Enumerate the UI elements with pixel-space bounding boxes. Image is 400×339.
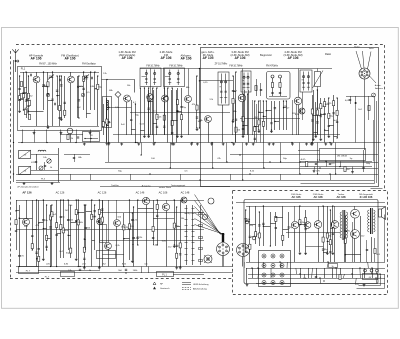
cable wire (195, 213, 223, 235)
switch contact a (185, 242, 188, 244)
FL1 drop ground (33, 132, 36, 135)
transistor stem up (108, 200, 110, 242)
amp wire (332, 206, 334, 252)
terminal pin (263, 274, 265, 276)
lower wire (91, 200, 93, 267)
band drop wire (170, 143, 172, 169)
IF underbox4 ground (258, 130, 261, 133)
amp link (323, 252, 327, 254)
limiter coil b (279, 75, 282, 78)
lower wire (84, 205, 86, 267)
left feed junction (13, 142, 14, 143)
interstage junction (106, 79, 107, 80)
svg-text:Begrenzer: Begrenzer (260, 53, 272, 57)
IF right resistor (320, 104, 322, 109)
FL1 drop wire (46, 130, 48, 143)
Tr2 under wire a (366, 240, 368, 262)
lower capacitor (42, 220, 44, 221)
diode wire (118, 98, 120, 143)
mid junction (132, 212, 133, 213)
L3 core arrow (19, 150, 31, 159)
IF underbox6 capacitor (316, 122, 318, 123)
amp junction (327, 241, 328, 242)
switch contact c (199, 237, 203, 239)
IF wire (199, 69, 201, 129)
amp capacitor (332, 233, 334, 234)
band junction (170, 167, 171, 168)
IF underbox2 junction (177, 111, 178, 112)
bus junction (149, 173, 150, 174)
bus lower (100, 186, 230, 188)
enclosure box lower (97, 251, 116, 259)
bus ground (268, 143, 271, 146)
amp junction (245, 221, 246, 222)
amp transistor stem (318, 228, 320, 262)
transistor emitter wire (242, 102, 244, 135)
lower junction (60, 199, 61, 200)
IF underbox1 resistor (148, 96, 150, 101)
strip junction (136, 142, 137, 143)
mid wire (102, 200, 104, 267)
lower link (32, 229, 36, 231)
mid wire (174, 200, 176, 245)
IF right wire (315, 102, 317, 135)
lower wire (19, 205, 21, 267)
FL1 capacitor (27, 105, 29, 106)
power transistor link (354, 218, 356, 230)
FL1 link (57, 95, 60, 97)
IF underbox2 link (172, 120, 177, 122)
IF underbox1 capacitor (147, 108, 149, 109)
mid resistor (179, 243, 181, 248)
IF underbox4 link (255, 126, 259, 128)
mid wire (123, 213, 125, 267)
terminal pin (263, 255, 265, 257)
Tr2 under resistor (374, 249, 376, 254)
FL1 link (86, 113, 90, 115)
transistor T9 AF126 (23, 219, 30, 226)
gap wire (292, 100, 294, 135)
amp capacitor (304, 229, 306, 230)
mid ground (173, 245, 176, 248)
amp lower junction (371, 267, 372, 268)
IF underbox2 capacitor (171, 132, 173, 133)
strip junction (191, 142, 192, 143)
amp between capacitor (344, 230, 346, 231)
amp upper resistor (282, 235, 284, 240)
lower capacitor (55, 235, 57, 236)
band drop wire (263, 143, 265, 169)
transistor T15b Treiber (331, 221, 339, 229)
IF underbox1 wire (148, 88, 150, 135)
IF junction (232, 75, 233, 76)
lower wire (36, 200, 38, 267)
IF underbox3 wire (243, 94, 245, 135)
AM trimmer arrow b (39, 166, 42, 169)
IF resistor (235, 127, 237, 132)
transistor collector wire (188, 69, 190, 96)
IF underbox4 capacitor (254, 138, 256, 139)
amp lower wire (364, 268, 366, 278)
lower resistor (75, 210, 77, 215)
choke box (103, 97, 112, 128)
IF left low junction (108, 107, 109, 108)
lamp cross a (204, 255, 212, 263)
socket lead 4 (370, 76, 377, 83)
lamp socket (204, 255, 212, 263)
T2 collector wire (70, 72, 72, 76)
lower wire (50, 205, 52, 267)
mid wire (133, 207, 135, 267)
FL1 drop wire (60, 130, 62, 143)
FL1 ground rail (20, 126, 99, 128)
lower junction (63, 199, 64, 200)
switch contact b (192, 225, 195, 227)
switch contact a (185, 254, 188, 256)
lower link (76, 221, 78, 223)
svg-text:AF 126: AF 126 (22, 190, 32, 194)
switch contact a (185, 208, 188, 210)
IF right ground (311, 143, 314, 146)
amp upper link (283, 229, 289, 231)
IF underbox4 wire (274, 101, 276, 130)
amp upper link (270, 223, 275, 225)
IF underbox4 resistor (254, 126, 256, 131)
IF strip top rail (140, 68, 332, 70)
IF right resistor (324, 102, 326, 107)
band link (90, 174, 92, 180)
IF underbox2 capacitor (180, 107, 182, 108)
mid capacitor (179, 254, 181, 255)
IF right junction (320, 113, 321, 114)
IF underbox4 link (259, 112, 263, 114)
terminal pin (263, 282, 265, 284)
FL1 resistor (47, 82, 49, 87)
AM trimmer C3 (47, 159, 51, 163)
mid resistor (173, 223, 175, 228)
socket area resistor (368, 106, 370, 111)
tone wire in (298, 150, 320, 152)
switch contact a (185, 260, 188, 262)
svg-text:FM 10,7MHz: FM 10,7MHz (169, 66, 183, 68)
svg-text:AF 106: AF 106 (160, 56, 171, 60)
amp rail junction (327, 261, 328, 262)
mid capacitor (101, 209, 103, 210)
FL1 resistor (59, 106, 61, 111)
switch contact b (192, 208, 195, 210)
FL1 junction (94, 71, 95, 72)
amp upper capacitor (258, 225, 260, 226)
lower capacitor (94, 211, 96, 212)
IF underbox2 wire (167, 88, 169, 143)
lower junction (68, 199, 69, 200)
socket lead down (364, 79, 366, 150)
transistor T6 AF106 (238, 94, 246, 102)
IF underbox2 resistor (171, 120, 173, 125)
IF left low junction (135, 142, 136, 143)
IF underbox2 ground (180, 135, 183, 138)
IF right wire (333, 95, 335, 143)
transistor emitter wire (164, 102, 166, 135)
FL1 wire (43, 72, 45, 110)
lower rail bottom 2 (16, 272, 233, 274)
amp transistor stem up (318, 206, 320, 221)
IF underbox2 resistor (180, 115, 182, 120)
FL1 capacitor (42, 85, 44, 86)
transistor T10 (142, 197, 149, 204)
cable wire (195, 225, 225, 235)
amp ground low (246, 284, 249, 287)
transistor T4a AF106 (162, 95, 169, 102)
transistor T14b (304, 222, 311, 229)
bus ground (245, 143, 248, 146)
IF underbox1 wire (152, 88, 154, 135)
transistor emitter wire (298, 105, 300, 135)
band drop wire (335, 143, 337, 175)
socket lead 1 (356, 51, 362, 69)
svg-text:FM 10,7MHz: FM 10,7MHz (229, 66, 243, 68)
transistor T3a AF106 (124, 95, 131, 102)
amp lower wire (300, 268, 302, 278)
lower capacitor (60, 216, 62, 217)
band drop wire (212, 143, 214, 169)
IF underbox4 resistor (262, 121, 264, 126)
IF right ground (314, 135, 317, 138)
IF resistor (196, 105, 198, 110)
amp lower capacitor (315, 276, 317, 277)
choke winding (107, 100, 108, 110)
strip junction (154, 142, 155, 143)
terminal pin (281, 282, 283, 284)
lower capacitor (85, 227, 87, 228)
amp upper resistor (258, 233, 260, 238)
mid wire (129, 200, 131, 260)
amp rail link (319, 278, 322, 284)
FL1 resistor (18, 96, 20, 101)
amplifier chassis border (244, 200, 378, 284)
IF underbox4 wire (254, 101, 256, 143)
inner section border (201, 48, 379, 187)
lower wire (78, 200, 80, 267)
connector PL6 (237, 244, 250, 257)
IF underbox3 junction (242, 125, 243, 126)
lower ground (42, 258, 45, 261)
IF left low resistor (102, 122, 104, 127)
transistor T17 AD166 (351, 230, 360, 239)
lower junction (84, 238, 85, 239)
FL1 junction (19, 75, 20, 76)
IF left low ground (107, 143, 110, 146)
IF underbox4 wire (271, 101, 273, 130)
IF left low junction (135, 103, 136, 104)
amp upper link (276, 217, 283, 219)
limiter cap a (271, 92, 273, 93)
mid capacitor (156, 215, 158, 216)
rail capacitor b (125, 269, 127, 270)
socket area cap (349, 99, 351, 100)
lower ground (83, 267, 86, 270)
amp between junction (345, 254, 346, 255)
switch column c (200, 205, 202, 265)
IF underbox1 link (149, 101, 153, 103)
strip ground (137, 143, 140, 146)
AM wire b (44, 162, 46, 170)
mid junction (157, 199, 158, 200)
FL1 left resistor (20, 94, 22, 99)
IF underbox2 ground (176, 135, 179, 138)
AM wire 2 (31, 170, 58, 172)
amp rail link (280, 262, 282, 268)
svg-text:AF 106: AF 106 (180, 56, 191, 60)
band junction (212, 167, 213, 168)
socket lead 3 (368, 52, 372, 70)
loudspeaker LS1 (379, 207, 386, 220)
FL1 link (23, 93, 26, 95)
rail junction a (79, 266, 80, 267)
bus junction (239, 154, 240, 155)
AM trimmer C4 (39, 166, 43, 170)
limiter cap b (279, 92, 281, 93)
lower resistor (49, 215, 51, 220)
IF left low resistor (106, 119, 108, 124)
socket lead 2 (363, 51, 365, 68)
lower junction (46, 204, 47, 205)
tuning capacitor (83, 75, 89, 80)
IF wire (196, 76, 198, 128)
switch contact a (185, 231, 188, 233)
IF right link (325, 130, 329, 132)
lamp cross b (204, 255, 212, 263)
transistor T18 (181, 197, 187, 203)
IF left low junction (106, 125, 107, 126)
lower wire (63, 200, 65, 258)
AM wire 4 (36, 154, 38, 170)
FL1 junction (86, 75, 87, 76)
lower resistor (70, 248, 72, 253)
switch box U5 (83, 132, 100, 142)
T1 emitter wire (36, 83, 38, 126)
battery terminal stem (371, 272, 373, 274)
transistor T4 AF106 (185, 96, 192, 103)
amp lower resistor (339, 275, 341, 280)
amp wire (330, 210, 332, 262)
IF transformer Fi1 (140, 68, 161, 87)
lower capacitor (75, 220, 77, 221)
amp lower wire (252, 268, 254, 278)
IF junction (196, 127, 197, 128)
transistor T2 AF106 (68, 76, 75, 83)
amp rail junction (335, 267, 336, 268)
lower junction (78, 199, 79, 200)
AM cap extra (73, 157, 75, 158)
IF left low capacitor (130, 119, 132, 120)
amp junction (332, 205, 333, 206)
band junction (335, 173, 336, 174)
interstage wire (102, 80, 135, 93)
IF left low wire (135, 104, 137, 143)
T9 emitter wire (26, 226, 28, 267)
lower resistor (46, 235, 48, 240)
IF underbox3 junction (242, 93, 243, 94)
IF underbox2 capacitor (163, 126, 165, 127)
AM capacitor C5 (35, 161, 37, 162)
band drop wire (299, 143, 301, 175)
amp upper junction (259, 211, 260, 212)
speaker return wire (384, 215, 386, 263)
tone junction a (325, 161, 326, 162)
terminal (271, 281, 275, 285)
IF junction (199, 80, 200, 81)
svg-text:FL1: FL1 (21, 67, 26, 71)
amp rail A (246, 262, 385, 264)
IF underbox1 junction (140, 87, 141, 88)
mid junction (99, 199, 100, 200)
FL1 wire (94, 72, 96, 110)
FM tuner enclosure FL1 (18, 67, 102, 131)
IF underbox2 wire (164, 88, 166, 135)
FL1 left resistor (28, 101, 30, 106)
IF underbox1 link (140, 130, 144, 132)
terminal box small (61, 272, 75, 277)
tone rail top (300, 161, 372, 163)
IF capacitor (232, 90, 234, 91)
FL1 trimmer a (46, 93, 50, 97)
IF underbox3 wire (247, 94, 249, 135)
IF right capacitor (336, 121, 338, 122)
limiter left wire b (260, 83, 262, 96)
amp link (250, 224, 256, 226)
strip ground (172, 143, 175, 146)
FL1 junction (56, 95, 57, 96)
IF underbox1 wire (156, 88, 158, 135)
IF right link (329, 125, 334, 127)
tone filter box (320, 149, 366, 161)
FL1 wire (78, 76, 80, 118)
band drop wire (141, 143, 143, 156)
tone gnd wire b (352, 167, 354, 171)
main horizontal bus 1 (18, 142, 381, 144)
IF underbox1 junction (144, 87, 145, 88)
amp wire (299, 206, 301, 252)
transistor T15 AC128 (314, 221, 322, 229)
trimmer near socket (372, 93, 376, 97)
bus junction (329, 173, 330, 174)
left feed wire (13, 60, 15, 182)
IF capacitor (235, 119, 237, 120)
IF left low junction (108, 142, 109, 143)
IF underbox4 link (266, 110, 271, 112)
IF underbox4 ground (270, 130, 273, 133)
mid ground (131, 260, 134, 263)
amp ground (326, 252, 329, 255)
terminal pin (281, 274, 283, 276)
strip ground (232, 143, 235, 146)
bus supply 2 (16, 174, 378, 176)
IF right wire (328, 98, 330, 135)
IF underbox2 junction (164, 87, 165, 88)
AM link wire (64, 154, 90, 156)
amp rail link (327, 262, 328, 268)
FL1 ground (18, 110, 21, 113)
amp rail link (303, 274, 305, 278)
cable (222, 233, 224, 242)
transistor T11 (162, 203, 169, 210)
amp between junction (345, 215, 346, 216)
socket area wire v3 (368, 96, 370, 120)
svg-text:Tastenaggregat: Tastenaggregat (171, 184, 186, 187)
mid resistor (152, 227, 154, 232)
lower junction (84, 266, 85, 267)
